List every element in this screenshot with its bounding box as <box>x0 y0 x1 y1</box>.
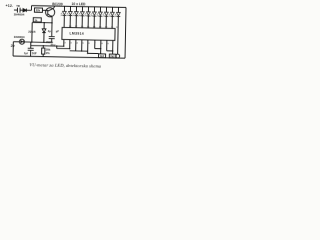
capacitor C1 <box>17 8 20 13</box>
wire pin9 <box>107 40 113 51</box>
wire pin10 <box>112 40 114 53</box>
wire riser <box>30 6 32 11</box>
wire bottom rail <box>13 56 125 58</box>
wire input top <box>14 9 17 11</box>
wire bus <box>70 50 88 52</box>
svg-text:22k: 22k <box>36 9 41 13</box>
wire emitter node H <box>32 21 52 23</box>
svg-text:µF: µF <box>56 29 60 33</box>
resistor R1 <box>34 8 42 12</box>
svg-text:50F: 50F <box>32 51 37 55</box>
resistor R3 <box>42 46 44 48</box>
capacitor C2 <box>49 36 55 38</box>
wire LED10 long drop <box>117 17 120 59</box>
wire top rail <box>32 6 126 8</box>
svg-text:1N4004: 1N4004 <box>14 35 25 39</box>
wire <box>26 9 31 11</box>
wire pin2 <box>63 39 65 46</box>
zener D4 <box>43 23 45 29</box>
transistor Q1 <box>45 8 54 17</box>
LED D3 <box>61 6 67 27</box>
wire pin5 <box>81 40 83 51</box>
wire base <box>42 9 47 11</box>
wire right rail <box>124 7 127 58</box>
svg-text:BC239: BC239 <box>52 2 63 6</box>
svg-text:1%: 1% <box>46 51 51 55</box>
svg-text:1N4004: 1N4004 <box>14 12 25 16</box>
wire sig to pin5 <box>31 45 64 48</box>
svg-text:25V: 25V <box>50 43 55 47</box>
diode D1 <box>23 9 26 12</box>
wire pin8 <box>100 40 102 53</box>
wire pin4 <box>75 40 77 51</box>
resistor R5 <box>109 54 116 58</box>
diode D2 <box>19 39 24 44</box>
LED D12 rightmost <box>117 7 119 12</box>
capacitor C3 <box>30 42 32 48</box>
IC U1 LM3914 <box>62 27 115 40</box>
svg-text:1µ/: 1µ/ <box>24 51 28 55</box>
wire pin7 <box>95 40 101 49</box>
trimmer P1 <box>116 54 120 58</box>
wire input ground leg <box>12 42 14 56</box>
wire pin3 <box>57 39 70 48</box>
svg-text:2k2: 2k2 <box>110 54 115 58</box>
svg-text:2v: 2v <box>11 44 15 48</box>
svg-text:1k2: 1k2 <box>100 54 105 58</box>
svg-text:TR: TR <box>16 4 20 8</box>
resistor R2 <box>33 18 41 22</box>
resistor R4 <box>99 54 106 58</box>
wire emitter drop <box>51 17 53 36</box>
wire left branch down <box>31 22 33 42</box>
svg-text:10 x LED: 10 x LED <box>72 2 87 6</box>
svg-text:LM3914: LM3914 <box>69 31 84 35</box>
wire link <box>56 46 58 48</box>
wire <box>20 9 23 11</box>
wire signal input <box>13 41 19 43</box>
svg-text:22k/5: 22k/5 <box>28 30 36 34</box>
svg-text:4µ: 4µ <box>48 29 52 33</box>
svg-text:+12.: +12. <box>5 4 13 8</box>
